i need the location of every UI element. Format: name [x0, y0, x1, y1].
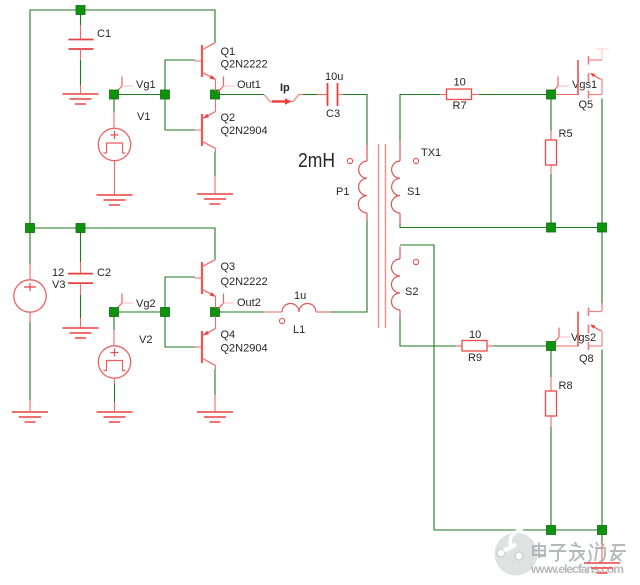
- svg-text:Vg1: Vg1: [136, 79, 156, 91]
- voltage marker Out1: [218, 77, 235, 93]
- ground of Q4: [197, 395, 233, 422]
- svg-text:10u: 10u: [325, 71, 343, 83]
- wire V1 stem: [113, 99, 115, 112]
- voltage marker Vg1: [116, 77, 133, 93]
- wire C3 to P1 top: [343, 95, 367, 146]
- ground of C1: [63, 85, 99, 104]
- wire C1 bottom to ground: [80, 60, 82, 85]
- wire bottom node to ground stem: [601, 535, 603, 544]
- wire Vg1 node to base ladder: [119, 94, 162, 96]
- watermark logo: [495, 529, 538, 576]
- resistor R8: [546, 377, 557, 427]
- wire base ladder of Q3/Q4: [165, 277, 195, 347]
- node Q8 gate: [547, 342, 556, 351]
- svg-text:2mH: 2mH: [298, 150, 335, 172]
- svg-text:Ip: Ip: [280, 82, 290, 94]
- dot of L1: [279, 318, 284, 323]
- svg-text:S2: S2: [405, 286, 418, 298]
- wire S1 bottom rail to R5 node: [400, 224, 547, 228]
- resistor R5: [546, 131, 557, 174]
- wire mid rail V+ stage2 to Q3 collector: [30, 228, 215, 260]
- wire Q5 source down to node: [601, 99, 603, 224]
- wire C2 top stem: [80, 233, 82, 263]
- svg-text:Q2N2904: Q2N2904: [221, 125, 268, 137]
- wire C2 bottom to ground: [80, 295, 82, 318]
- svg-text:C2: C2: [97, 267, 111, 279]
- node Vg2: [110, 308, 119, 317]
- dot of P1: [347, 158, 352, 163]
- node bottom rail R8: [547, 526, 556, 535]
- svg-text:Vg2: Vg2: [136, 298, 156, 310]
- voltage source V3: [14, 264, 46, 412]
- svg-text:R7: R7: [453, 100, 467, 112]
- ground of V3: [12, 412, 48, 422]
- wire R7 to Q5 gate node: [479, 94, 547, 96]
- wire base ladder of Q1/Q2: [165, 60, 195, 130]
- wire R5 bottom to node: [550, 174, 552, 223]
- wire Vg2 node to base ladder 2: [119, 311, 162, 313]
- wire node down to Q8 drain: [601, 232, 603, 303]
- svg-text:C1: C1: [97, 28, 111, 40]
- inductor L1: [264, 304, 330, 313]
- node C1 top: [76, 6, 85, 15]
- transistor Q5 (MOSFET): [556, 94, 579, 96]
- dot of S1: [413, 158, 418, 163]
- svg-text:Q4: Q4: [221, 329, 236, 341]
- svg-text:TX1: TX1: [421, 147, 441, 159]
- svg-text:Q1: Q1: [221, 46, 236, 58]
- transistor Q3: [195, 260, 216, 297]
- wire V2 minus to ground: [114, 384, 116, 402]
- wire P1 bottom to Out2 net: [330, 221, 367, 312]
- node base ladder 2: [161, 308, 170, 317]
- wire R9 to Q8 gate node: [493, 345, 547, 347]
- resistor R9: [456, 341, 493, 352]
- wire bottom rail: [434, 529, 602, 531]
- svg-text:R9: R9: [468, 352, 482, 364]
- voltage marker Vgs1: [552, 77, 569, 93]
- voltage source V1: [98, 112, 130, 195]
- capacitor C2: [68, 262, 93, 328]
- node base ladder 1: [161, 90, 170, 99]
- capacitor C1: [69, 25, 94, 60]
- svg-text:V3: V3: [52, 279, 65, 291]
- svg-text:Vgs1: Vgs1: [572, 79, 597, 91]
- ground of C2: [63, 328, 99, 338]
- wire Ip probe to C3: [303, 94, 317, 96]
- transistor Q1: [195, 43, 216, 80]
- svg-text:Vgs2: Vgs2: [571, 332, 596, 344]
- svg-text:L1: L1: [293, 324, 305, 336]
- wire S2 top around to bottom rail: [400, 245, 434, 530]
- watermark chinese text 电子发烧友 (approximated strokes): [533, 542, 626, 562]
- ground bottom right: [584, 543, 620, 573]
- ground of V1: [97, 195, 133, 205]
- winding S2: [392, 247, 401, 319]
- wire top rail V+ from left rail to Q1 collector: [30, 10, 215, 224]
- node Vg1: [110, 90, 119, 99]
- svg-text:Q2: Q2: [221, 112, 236, 124]
- wire Q8 gate node down to R8: [550, 351, 552, 378]
- ground of Q2: [197, 176, 233, 204]
- transistor Q2: [215, 99, 217, 112]
- svg-text:Q3: Q3: [221, 261, 236, 273]
- svg-text:www.elecfans.com: www.elecfans.com: [530, 562, 624, 576]
- node left rail / V3: [26, 224, 35, 233]
- wire left rail lower to V3: [29, 233, 31, 265]
- svg-text:R8: R8: [559, 380, 573, 392]
- wire Out1 node to Ip probe: [220, 94, 265, 96]
- voltage source V2: [98, 330, 130, 412]
- svg-text:V1: V1: [137, 111, 150, 123]
- wire Q4 collector to ground: [214, 369, 216, 395]
- svg-text:10: 10: [454, 77, 466, 89]
- svg-text:R5: R5: [559, 128, 573, 140]
- node C2 top: [76, 224, 85, 233]
- node Q5 gate: [547, 90, 556, 99]
- svg-text:V2: V2: [139, 334, 152, 346]
- node Q5 source / Q8 drain: [598, 223, 607, 232]
- node R5 bottom: [547, 223, 556, 232]
- node bottom rail Q8 source: [598, 526, 607, 535]
- wire Out2 node to L1: [220, 311, 265, 313]
- current probe Ip: [264, 95, 303, 105]
- wire V3 minus to ground: [29, 322, 31, 400]
- svg-text:Q2N2222: Q2N2222: [221, 276, 268, 288]
- voltage marker Vgs2: [553, 328, 570, 344]
- winding S1: [391, 141, 400, 224]
- transistor Q8 (MOSFET): [556, 345, 579, 347]
- wire S2 bottom to R9: [400, 318, 456, 346]
- svg-text:S1: S1: [407, 186, 420, 198]
- svg-text:12: 12: [52, 267, 64, 279]
- voltage marker Out2: [218, 294, 235, 310]
- wire S1 top to R7: [400, 95, 440, 142]
- svg-text:Q2N2222: Q2N2222: [221, 59, 268, 71]
- node Out2: [211, 308, 220, 317]
- transformer core: [379, 144, 386, 328]
- svg-text:1u: 1u: [294, 290, 306, 302]
- capacitor C3: [317, 83, 343, 106]
- transistor Q4: [215, 316, 217, 329]
- svg-text:P1: P1: [336, 186, 349, 198]
- svg-text:Out1: Out1: [237, 79, 261, 91]
- wire V2 stem: [113, 316, 115, 330]
- wire Q5 gate node down to R5: [550, 99, 552, 131]
- wire Q8 source down to bottom rail node: [601, 350, 603, 526]
- voltage marker Vg2: [116, 294, 133, 310]
- wire R8 bottom to rail node: [550, 427, 552, 526]
- winding P1: [358, 145, 367, 221]
- node Out1: [211, 90, 220, 99]
- pale dangling drain stub of Q5: [595, 49, 609, 60]
- wire Q2 collector to ground: [214, 152, 216, 176]
- svg-text:C3: C3: [326, 108, 340, 120]
- wire C1 stem from top rail: [80, 15, 82, 26]
- dot of S2: [413, 259, 418, 264]
- svg-text:Q2N2904: Q2N2904: [221, 343, 268, 355]
- svg-text:Out2: Out2: [237, 297, 261, 309]
- wire R5 node to Q5 source node: [556, 227, 598, 229]
- ground of V2: [97, 412, 133, 422]
- svg-text:10: 10: [469, 329, 481, 341]
- svg-text:Q8: Q8: [579, 353, 594, 365]
- resistor R7: [440, 89, 479, 100]
- svg-text:Q5: Q5: [579, 99, 594, 111]
